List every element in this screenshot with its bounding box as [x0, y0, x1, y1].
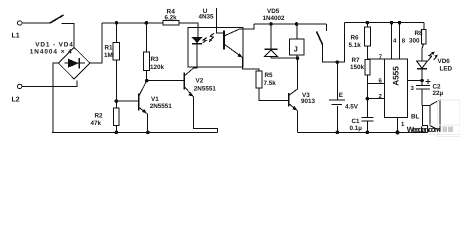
diode VD5 1N4002: [270, 24, 272, 49]
svg-text:Weedian.com: Weedian.com: [407, 125, 441, 134]
opto base pin wire: [217, 8, 224, 33]
svg-text:2N5551: 2N5551: [150, 103, 173, 110]
wire VD5/relay bottom to V3 collector: [271, 57, 298, 59]
battery E 4.5V: [336, 62, 338, 100]
svg-text:0.1µ: 0.1µ: [350, 125, 363, 132]
svg-text:R5: R5: [265, 72, 274, 79]
svg-text:6.2k: 6.2k: [165, 15, 178, 22]
bridge rectifier VD1-VD4 diamond: [59, 48, 91, 80]
wire R1 bottom jog: [115, 60, 117, 108]
resistor R6: [366, 23, 368, 27]
wire emitter to R5: [243, 58, 259, 71]
svg-text:VD5: VD5: [267, 8, 280, 15]
svg-text:1M: 1M: [104, 52, 113, 59]
LED VD6: [421, 49, 423, 61]
watermark: [438, 100, 460, 137]
optocoupler U 4N35 box: [188, 28, 243, 67]
opto light arrows: [203, 38, 207, 43]
resistor R5: [256, 71, 262, 88]
resistor R2: [113, 108, 119, 126]
capacitor C1: [362, 116, 374, 118]
svg-text:120k: 120k: [150, 64, 165, 71]
opto LED: [192, 37, 203, 43]
resistor R1: [116, 23, 118, 43]
opto collector: [224, 24, 254, 36]
wire R4 to opto LED: [179, 23, 198, 37]
svg-text:J: J: [294, 45, 298, 54]
svg-text:5.1k: 5.1k: [349, 42, 362, 49]
ground rail right: [298, 131, 428, 133]
node R3/V1c/V2b: [145, 79, 149, 83]
node R1/R2/V1 base: [115, 99, 119, 103]
svg-text:E: E: [339, 92, 343, 99]
wire pin4: [391, 23, 393, 60]
wire top rail left: [102, 22, 163, 24]
resistor R7: [365, 60, 370, 76]
svg-text:2N5551: 2N5551: [194, 85, 217, 92]
wire L2 to bridge bottom: [22, 80, 77, 86]
svg-text:V1: V1: [151, 96, 159, 103]
svg-text:L1: L1: [12, 33, 20, 40]
relay contact switch: [326, 24, 328, 31]
svg-text:BL: BL: [411, 113, 420, 120]
svg-text:R3: R3: [151, 56, 160, 63]
svg-text:L2: L2: [12, 97, 20, 104]
IC A555: [385, 59, 408, 117]
svg-text:R2: R2: [95, 113, 104, 120]
wire bridge plus to rail: [90, 23, 102, 63]
wire V2 emitter to ground rail: [193, 97, 217, 133]
wire node to V2 base: [147, 80, 185, 82]
svg-text:R7: R7: [352, 57, 361, 64]
wire pin7: [367, 58, 384, 60]
wire L1 to switch: [22, 22, 50, 24]
LED light arrows: [428, 53, 433, 61]
terminal L2: [18, 84, 22, 88]
svg-text:R8: R8: [415, 30, 424, 37]
svg-text:1N4002: 1N4002: [263, 15, 286, 22]
svg-text:VD1 - VD4: VD1 - VD4: [35, 41, 73, 48]
capacitor C2: [425, 79, 430, 84]
wire mid rail: [254, 23, 327, 25]
speaker BL: [422, 105, 430, 125]
relay coil J: [290, 39, 305, 55]
svg-text:22µ: 22µ: [433, 90, 444, 97]
svg-text:4.5V: 4.5V: [345, 104, 359, 111]
resistor R3: [145, 23, 147, 52]
svg-text:R6: R6: [351, 35, 360, 42]
ground rail left: [52, 131, 218, 133]
transistor V2 2N5551: [183, 73, 185, 90]
opto emitter: [224, 44, 243, 58]
svg-text:1N4004 × 4: 1N4004 × 4: [30, 48, 72, 55]
svg-text:300: 300: [409, 37, 420, 44]
wire pin6: [367, 82, 384, 84]
transistor V1 2N5551: [138, 94, 140, 111]
wire bridge minus down: [53, 63, 59, 132]
svg-text:A555: A555: [391, 66, 400, 86]
svg-text:R1: R1: [105, 45, 114, 52]
wire switch to bridge top: [62, 23, 75, 47]
wire to V1 base: [116, 100, 138, 102]
wire LED cathode to V2 collector: [194, 44, 198, 68]
svg-text:4N35: 4N35: [199, 14, 215, 21]
svg-text:LED: LED: [440, 66, 453, 73]
transistor V3 9013: [288, 93, 290, 107]
switch S blade: [50, 15, 64, 23]
opto phototransistor: [223, 31, 225, 50]
svg-text:VD6: VD6: [438, 58, 451, 65]
wire pin1: [397, 117, 399, 132]
resistor R4: [163, 21, 179, 25]
svg-text:47k: 47k: [91, 120, 102, 127]
svg-text:150k: 150k: [350, 64, 365, 71]
svg-text:9013: 9013: [301, 98, 316, 105]
wire top rail right: [345, 22, 424, 24]
svg-text:7.5k: 7.5k: [264, 80, 277, 87]
resistor R8: [421, 29, 426, 43]
wire pin8: [399, 23, 401, 60]
wire pin2: [367, 98, 384, 100]
bridge diode symbol: [65, 62, 85, 64]
terminal L1: [18, 21, 22, 25]
wire pin3: [408, 80, 422, 82]
svg-text:V2: V2: [196, 78, 204, 85]
